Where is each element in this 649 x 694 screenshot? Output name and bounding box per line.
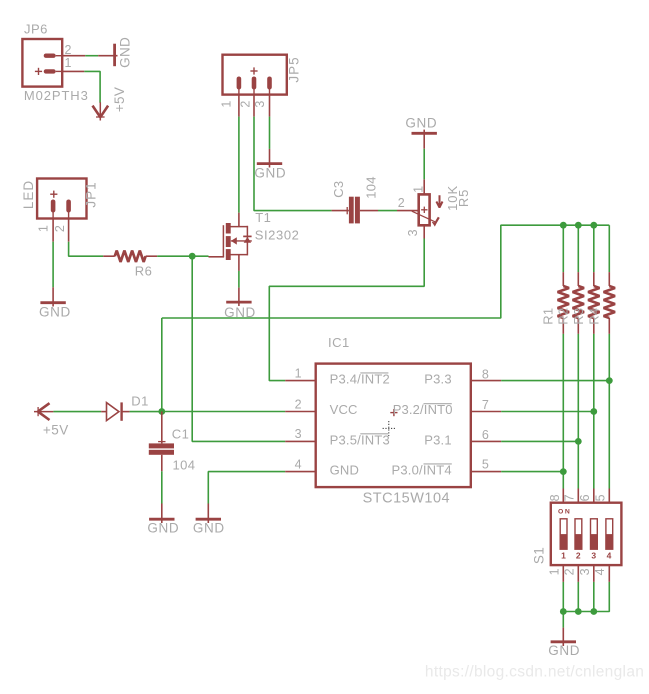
supply +5V arrow (left) — [34, 403, 53, 420]
wire col4 lower — [608, 334, 610, 489]
svg-text:IC1: IC1 — [328, 335, 350, 350]
svg-text:5: 5 — [593, 494, 607, 501]
value 104 (C3) vertical — [363, 176, 378, 199]
watermark — [425, 663, 644, 680]
label R3 vertical — [571, 308, 586, 325]
JP6 pin 1 lead — [62, 70, 84, 72]
junction bottom col2 — [575, 608, 582, 615]
R5 pin3 lead down — [423, 225, 425, 238]
wire col3 lower — [593, 334, 595, 489]
pin number 5 — [482, 458, 489, 472]
wire JP1.2 to R6 — [69, 242, 104, 257]
wire R5.3 to IC pin1 — [269, 239, 424, 381]
label GND (JP5) — [254, 166, 286, 181]
wire IC pin6 net — [501, 440, 578, 442]
value 104 (C1) — [173, 457, 196, 472]
label JP6 — [24, 22, 48, 37]
ground GND above R5 (inverted) — [412, 130, 437, 149]
R5 pin1 lead up — [423, 179, 425, 194]
svg-text:+5V: +5V — [43, 422, 69, 437]
IC pin 5 lead — [471, 471, 501, 473]
S1 top pin leads — [563, 489, 609, 503]
connector JP6 — [22, 39, 62, 87]
svg-text:M02PTH3: M02PTH3 — [24, 88, 89, 103]
wire col1 lower — [562, 334, 564, 489]
junction pin7/col3 — [590, 408, 597, 415]
svg-text:+5V: +5V — [112, 87, 127, 112]
wire VCC junction up — [161, 318, 163, 412]
wire IC pin8 net — [501, 380, 609, 382]
value M02PTH3 — [24, 88, 89, 103]
wire D1 to VCC junction — [130, 411, 162, 413]
svg-text:3: 3 — [295, 427, 302, 441]
JP1 pin numbers — [36, 225, 67, 232]
wire JP5.1 to T1 drain — [238, 117, 240, 213]
ground GND at S1 — [551, 628, 576, 646]
JP5 pin numbers — [220, 100, 267, 107]
value 10K vertical — [445, 185, 460, 211]
svg-text:GND: GND — [117, 37, 132, 68]
svg-text:R2: R2 — [555, 308, 570, 325]
svg-text:GND: GND — [147, 521, 179, 536]
svg-text:2: 2 — [576, 551, 581, 561]
switch S1 box — [551, 503, 622, 565]
svg-text:4: 4 — [593, 568, 607, 575]
label R1 vertical — [540, 308, 555, 325]
svg-text:JP5: JP5 — [286, 56, 301, 82]
svg-text:7: 7 — [482, 398, 489, 412]
connector JP1 (LED) — [37, 179, 86, 219]
label R5 vertical — [456, 189, 471, 207]
label D1 — [131, 394, 148, 409]
R5 pin 3 number vertical — [406, 229, 420, 236]
svg-text:2: 2 — [239, 100, 253, 107]
svg-text:4: 4 — [607, 551, 612, 561]
label T1 — [255, 210, 271, 225]
svg-text:STC15W104: STC15W104 — [363, 490, 451, 506]
junction VCC node — [158, 408, 165, 415]
wire IC pin5 net — [501, 471, 563, 473]
label GND (T1) — [224, 305, 256, 320]
wire S1.4 down — [563, 582, 609, 612]
JP1 pin leads — [53, 219, 69, 242]
svg-text:2: 2 — [562, 568, 576, 575]
svg-text:6: 6 — [482, 428, 489, 442]
svg-text:P3.3: P3.3 — [424, 371, 452, 386]
pin name P3.1 — [424, 432, 452, 447]
cursor crosshair — [383, 421, 396, 436]
value STC15W104 — [363, 490, 451, 506]
svg-text:R3: R3 — [571, 308, 586, 325]
svg-text:C1: C1 — [172, 427, 189, 442]
connector JP5 — [223, 55, 287, 95]
trimmer R5 10K — [397, 194, 443, 226]
wire col3 upper — [593, 225, 595, 272]
svg-text:1: 1 — [561, 551, 566, 561]
capacitor C3 — [332, 197, 378, 224]
pin name P3.5/INT3 — [330, 432, 390, 447]
svg-text:2: 2 — [398, 196, 405, 210]
junction bottom col1 — [560, 608, 567, 615]
resistor R2 — [573, 272, 584, 334]
pin number 4 — [295, 457, 302, 471]
label ON — [558, 509, 571, 516]
svg-text:SI2302: SI2302 — [255, 228, 300, 243]
label LED vertical — [21, 180, 36, 209]
wire S1.3 down — [593, 582, 595, 612]
supply +5V arrow (down) — [93, 102, 109, 120]
wire R6 to T1 gate — [157, 255, 208, 257]
wire to bottom GND — [562, 612, 564, 628]
wire C3 to R5 wiper — [378, 210, 397, 212]
svg-text:6: 6 — [578, 494, 592, 501]
wire JP5.2 down — [254, 117, 332, 211]
wire IC pin7 net — [501, 411, 594, 413]
IC1 STC15W104 box — [316, 364, 471, 488]
resistor R1 — [558, 272, 569, 334]
label GND vertical — [117, 37, 132, 68]
label IC1 — [328, 335, 350, 350]
pin number 8 — [482, 367, 489, 381]
IC pin 1 lead — [285, 380, 316, 382]
svg-text:GND: GND — [405, 116, 437, 131]
JP5 plus mark — [250, 67, 257, 74]
JP6 plus mark — [35, 68, 42, 75]
wire JP1.1 to GND — [52, 242, 54, 288]
svg-text:P3.0/INT4: P3.0/INT4 — [391, 462, 451, 477]
pin name P3.4/INT2 — [330, 371, 390, 386]
svg-text:4: 4 — [295, 457, 302, 471]
ground GND at JP6 pin2 — [98, 44, 117, 66]
label C3 vertical — [331, 181, 346, 198]
wire JP6.2 to GND — [85, 55, 98, 57]
wire S1.2 down — [577, 582, 579, 612]
svg-text:R6: R6 — [135, 263, 152, 278]
wire +5V to D1 — [53, 411, 101, 413]
IC pin 6 lead — [471, 440, 501, 442]
svg-text:JP1: JP1 — [84, 181, 99, 207]
wire R5.1 to GND — [423, 149, 425, 180]
JP5 pin leads — [239, 95, 270, 117]
wire col4 upper — [608, 225, 610, 272]
svg-text:R4: R4 — [586, 308, 601, 325]
IC1 origin cross — [390, 409, 397, 416]
wire S1.1 down — [562, 582, 564, 612]
junction top col2 — [575, 222, 582, 229]
label C1 — [172, 427, 189, 442]
label +5V vertical — [112, 87, 127, 112]
IC pin 2 lead — [285, 411, 316, 413]
ground GND at C1 — [149, 504, 174, 524]
S1 position digits — [561, 551, 612, 561]
S1 top pin numbers — [548, 494, 607, 501]
diode D1 — [101, 402, 129, 420]
wire VCC top run — [162, 225, 610, 318]
wire col2 lower — [577, 334, 579, 489]
pin number 7 — [482, 398, 489, 412]
label R4 vertical — [586, 308, 601, 325]
svg-text:104: 104 — [363, 176, 378, 199]
svg-text:GND: GND — [548, 643, 580, 658]
label GND (R5) — [405, 116, 437, 131]
wire C1 to GND — [161, 471, 163, 503]
junction at R6/gate — [189, 253, 196, 260]
label S1 vertical — [532, 547, 547, 564]
svg-text:GND: GND — [254, 166, 286, 181]
svg-text:GND: GND — [330, 462, 360, 477]
svg-text:1: 1 — [295, 366, 302, 380]
resistor R4 — [604, 272, 615, 334]
label GND (C1) — [147, 521, 179, 536]
ground GND at JP5.3 — [257, 149, 282, 168]
svg-text:2: 2 — [295, 397, 302, 411]
svg-text:T1: T1 — [255, 210, 271, 225]
label GND (pin4) — [193, 521, 225, 536]
pin number 1 — [295, 366, 302, 380]
svg-text:LED: LED — [21, 180, 36, 209]
svg-text:S1: S1 — [532, 547, 547, 564]
svg-text:1: 1 — [36, 225, 50, 232]
svg-text:8: 8 — [482, 367, 489, 381]
svg-text:D1: D1 — [131, 394, 148, 409]
label +5V — [43, 422, 69, 437]
svg-text:P3.5/INT3: P3.5/INT3 — [330, 432, 390, 447]
svg-text:1: 1 — [547, 568, 561, 575]
label JP1 vertical — [84, 181, 99, 207]
svg-text:104: 104 — [173, 457, 196, 472]
wire JP5.3 to GND — [269, 117, 271, 149]
ground GND at T1 — [226, 288, 251, 306]
svg-text:R1: R1 — [540, 308, 555, 325]
junction bottom col3 — [590, 608, 597, 615]
svg-text:ON: ON — [558, 509, 571, 516]
svg-text:C3: C3 — [331, 181, 346, 198]
JP6 pin 2 lead — [62, 55, 85, 57]
label GND (S1) — [548, 643, 580, 658]
value SI2302 — [255, 228, 300, 243]
label R6 — [135, 263, 152, 278]
svg-text:R5: R5 — [456, 189, 471, 207]
svg-text:P3.2/INT0: P3.2/INT0 — [393, 402, 453, 417]
svg-text:1: 1 — [220, 100, 234, 107]
pin name P3.2/INT0 — [393, 402, 453, 417]
R5 pin 1 number vertical — [412, 186, 426, 193]
svg-text:GND: GND — [193, 521, 225, 536]
svg-text:7: 7 — [563, 494, 577, 501]
IC pin 7 lead — [471, 411, 501, 413]
pin number 6 — [482, 428, 489, 442]
svg-text:2: 2 — [53, 225, 67, 232]
transistor T1 SI2302 — [209, 213, 252, 271]
svg-text:GND: GND — [39, 304, 71, 319]
IC pin 3 lead — [285, 440, 316, 442]
junction top col3 — [590, 222, 597, 229]
wire col2 upper — [577, 225, 579, 272]
svg-text:P3.1: P3.1 — [424, 432, 452, 447]
svg-text:8: 8 — [548, 494, 562, 501]
pin number 3 — [295, 427, 302, 441]
label JP5 vertical — [286, 56, 301, 82]
IC pin 8 lead — [471, 380, 501, 382]
resistor R6 — [103, 251, 157, 262]
svg-text:VCC: VCC — [330, 402, 358, 417]
svg-text:3: 3 — [253, 100, 267, 107]
S1 bottom pin numbers — [547, 568, 607, 575]
svg-text:1: 1 — [65, 56, 72, 70]
resistor R3 — [588, 272, 599, 334]
capacitor C1 — [149, 412, 174, 472]
svg-text:P3.4/INT2: P3.4/INT2 — [330, 371, 390, 386]
junction pin6/col2 — [575, 438, 582, 445]
S1 slots — [560, 519, 613, 549]
wire T1 source to GND — [238, 271, 240, 288]
junction pin5/col1 — [560, 468, 567, 475]
svg-text:https://blog.csdn.net/cnlengla: https://blog.csdn.net/cnlenglan — [425, 663, 644, 680]
JP6 pin 2 number — [65, 43, 72, 57]
wire IC pin4 to GND — [208, 472, 285, 504]
ground GND at JP1 — [40, 287, 65, 306]
IC pin 4 lead — [285, 471, 316, 473]
wire JP6.1 to +5V — [84, 71, 100, 102]
pin name P3.0/INT4 — [391, 462, 451, 477]
R5 pin 2 number — [398, 196, 405, 210]
wire VCC junction to IC pin2 — [162, 411, 285, 413]
label GND (JP1) — [39, 304, 71, 319]
svg-text:3: 3 — [406, 229, 420, 236]
pin name GND — [330, 462, 360, 477]
label R2 vertical — [555, 308, 570, 325]
wire col1 upper — [562, 225, 564, 272]
S1 bottom pin leads — [563, 565, 609, 582]
junction pin8/col4 — [606, 377, 613, 384]
JP1 plus mark — [50, 191, 57, 198]
svg-text:JP6: JP6 — [24, 22, 48, 37]
svg-text:5: 5 — [482, 458, 489, 472]
JP6 pin 1 number — [65, 56, 72, 70]
pin name VCC — [330, 402, 358, 417]
junction top col1 — [560, 222, 567, 229]
wire junction down to pin3 row — [192, 256, 285, 441]
pin number 2 — [295, 397, 302, 411]
pin name P3.3 — [424, 371, 452, 386]
svg-text:3: 3 — [578, 568, 592, 575]
ground GND at IC pin4 — [196, 504, 221, 524]
svg-text:3: 3 — [591, 551, 596, 561]
